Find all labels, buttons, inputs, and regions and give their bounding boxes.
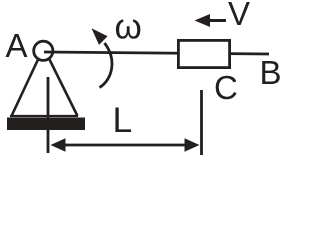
slider block C — [178, 40, 229, 67]
dimension left arrowhead — [51, 138, 66, 152]
svg-text:ω: ω — [115, 8, 142, 47]
support triangle right leg — [50, 60, 78, 117]
omega arrowhead — [92, 28, 108, 45]
dimension right arrowhead — [185, 138, 200, 152]
svg-text:B: B — [260, 54, 282, 91]
svg-text:A: A — [6, 27, 28, 64]
velocity arrow line — [208, 19, 226, 22]
omega arc — [100, 43, 112, 88]
right extension line — [200, 90, 203, 155]
left extension line — [47, 77, 50, 153]
ground bar — [7, 118, 85, 131]
pivot circle at A — [34, 41, 53, 60]
support base line — [10, 115, 78, 117]
velocity arrowhead — [195, 14, 211, 27]
svg-text:L: L — [113, 100, 133, 140]
svg-text:V: V — [228, 0, 250, 32]
support triangle left leg — [12, 60, 39, 117]
svg-text:C: C — [214, 69, 238, 106]
dimension line L — [62, 144, 188, 147]
wire rod A to B — [44, 52, 269, 54]
